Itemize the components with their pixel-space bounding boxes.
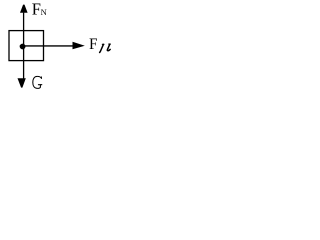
svg-text:N: N <box>41 7 47 17</box>
background <box>0 0 117 97</box>
friction force arrowhead <box>73 42 85 50</box>
block (box outline) <box>9 31 44 61</box>
node: center-of-mass dot <box>20 44 26 50</box>
wire: normal force arrow shaft <box>23 13 25 47</box>
wire: friction force arrow shaft <box>20 45 77 47</box>
gravity arrowhead <box>18 78 26 87</box>
svg-text:F: F <box>89 36 98 53</box>
wire: gravity arrow shaft <box>23 47 25 79</box>
label mu (subscript of friction force) <box>100 44 111 52</box>
normal force arrowhead <box>20 5 28 13</box>
label G <box>33 76 42 88</box>
